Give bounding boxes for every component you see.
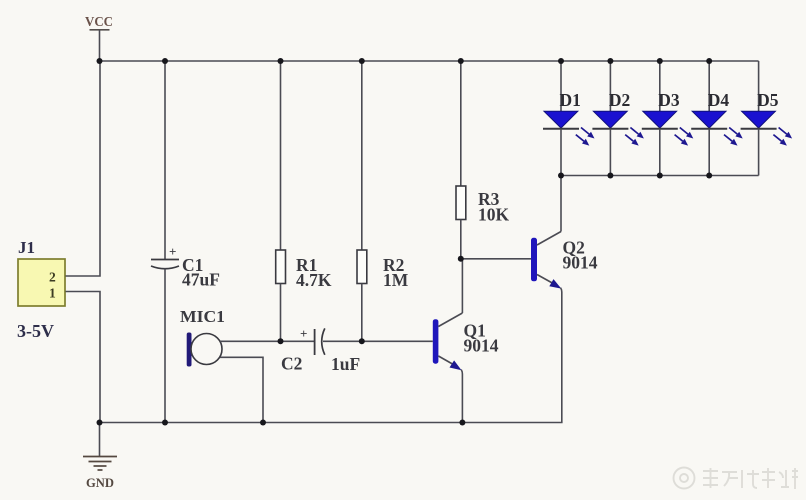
microphone MIC1 bbox=[180, 307, 225, 367]
wire LED cathode rail bbox=[561, 175, 759, 177]
junction dot (610.4,61) bbox=[607, 58, 613, 64]
wire bottom ground rail bbox=[100, 422, 562, 424]
svg-text:9014: 9014 bbox=[464, 336, 499, 356]
junction dot (99.5,61) bbox=[97, 58, 103, 64]
svg-text:D2: D2 bbox=[609, 90, 630, 110]
junction dot (659.8,175.5) bbox=[657, 173, 663, 179]
svg-text:47uF: 47uF bbox=[182, 270, 220, 290]
transistor Q1 9014 bbox=[433, 313, 499, 370]
junction dot (165,422.5) bbox=[162, 420, 168, 426]
wire Q1 collector to R3 node bbox=[461, 259, 463, 313]
LED D3 bbox=[642, 61, 694, 176]
junction dot (99.5,422.5) bbox=[97, 420, 103, 426]
junction dot (460.8,258.8) bbox=[458, 256, 464, 262]
svg-text:C2: C2 bbox=[281, 354, 302, 374]
junction dot (462.4,422.5) bbox=[459, 420, 465, 426]
wire Q1 emitter to ground rail bbox=[461, 370, 462, 423]
wire R3 node to Q2 base bbox=[461, 258, 531, 260]
svg-text:1uF: 1uF bbox=[331, 354, 360, 374]
junction dot (280.5,341.3) bbox=[278, 338, 284, 344]
junction dot (561,61) bbox=[558, 58, 564, 64]
svg-text:2: 2 bbox=[49, 270, 56, 285]
junction dot (263,422.5) bbox=[260, 420, 266, 426]
wire C2 to Q1 base bbox=[323, 340, 433, 342]
resistor R3 10K bbox=[456, 61, 510, 259]
wire J1 pin2 to VCC rail bbox=[66, 61, 101, 276]
svg-text:1: 1 bbox=[49, 286, 56, 301]
junction dot (659.8,61) bbox=[657, 58, 663, 64]
LED D1 bbox=[543, 61, 595, 176]
junction dot (460.8,61) bbox=[458, 58, 464, 64]
resistor R2 1M bbox=[357, 61, 409, 341]
LED D5 bbox=[741, 61, 793, 176]
wire J1 pin1 to ground rail bbox=[66, 292, 101, 423]
resistor R1 4.7K bbox=[276, 61, 332, 341]
capacitor C2 1uF bbox=[281, 326, 360, 374]
VCC power symbol bbox=[85, 15, 113, 61]
junction dot (561,175.5) bbox=[558, 173, 564, 179]
svg-text:1M: 1M bbox=[383, 270, 409, 290]
svg-text:+: + bbox=[300, 326, 307, 341]
svg-text:3-5V: 3-5V bbox=[17, 321, 54, 341]
wire top VCC rail bbox=[100, 60, 759, 62]
junction dot (709.2,61) bbox=[706, 58, 712, 64]
LED D2 bbox=[592, 61, 644, 176]
svg-text:GND: GND bbox=[86, 476, 114, 490]
svg-text:MIC1: MIC1 bbox=[180, 307, 225, 326]
wire MIC1 output to C2 bbox=[220, 340, 315, 342]
junction dot (361.8,341.3) bbox=[359, 338, 365, 344]
junction dot (361.8,61) bbox=[359, 58, 365, 64]
watermark text bottom right bbox=[674, 468, 799, 490]
svg-text:+: + bbox=[169, 244, 176, 259]
svg-text:4.7K: 4.7K bbox=[296, 270, 332, 290]
svg-text:D4: D4 bbox=[708, 90, 730, 110]
junction dot (610.4,175.5) bbox=[607, 173, 613, 179]
svg-text:9014: 9014 bbox=[563, 253, 598, 273]
svg-text:D1: D1 bbox=[560, 90, 581, 110]
connector J1 bbox=[17, 238, 65, 341]
capacitor C1 47uF bbox=[151, 61, 220, 423]
ground symbol GND bbox=[83, 423, 117, 491]
svg-text:D3: D3 bbox=[658, 90, 680, 110]
svg-text:J1: J1 bbox=[18, 238, 35, 257]
junction dot (165,61) bbox=[162, 58, 168, 64]
wire Q2 collector to LED rail bbox=[560, 176, 562, 232]
svg-text:10K: 10K bbox=[478, 205, 510, 225]
junction dot (709.2,175.5) bbox=[706, 173, 712, 179]
LED D4 bbox=[691, 61, 743, 176]
wire Q2 emitter to ground rail bbox=[561, 288, 562, 423]
svg-text:VCC: VCC bbox=[85, 15, 113, 30]
junction dot (280.5,61) bbox=[278, 58, 284, 64]
svg-text:D5: D5 bbox=[757, 90, 779, 110]
wire MIC1 to ground rail bbox=[220, 357, 263, 422]
transistor Q2 9014 bbox=[531, 232, 598, 289]
